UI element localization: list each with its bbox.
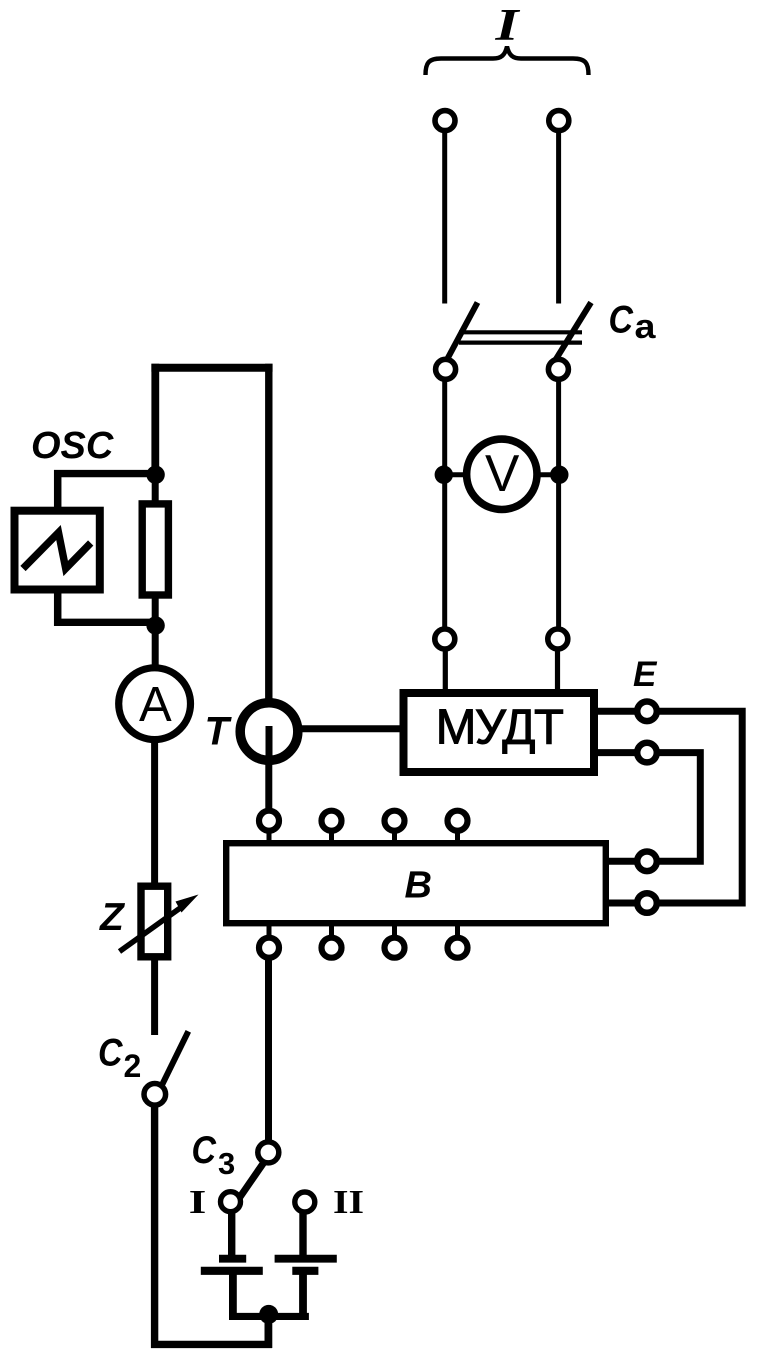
svg-text:C: C bbox=[192, 1129, 217, 1172]
svg-text:МУДТ: МУДТ bbox=[436, 701, 563, 755]
svg-text:B: B bbox=[405, 865, 432, 907]
svg-text:V: V bbox=[485, 444, 520, 502]
svg-text:E: E bbox=[633, 655, 658, 694]
svg-text:I: I bbox=[189, 1184, 207, 1221]
svg-text:3: 3 bbox=[218, 1146, 235, 1181]
svg-text:II: II bbox=[333, 1184, 364, 1221]
svg-text:I: I bbox=[494, 0, 520, 50]
svg-text:T: T bbox=[205, 710, 233, 754]
svg-text:C: C bbox=[609, 299, 634, 342]
svg-text:OSC: OSC bbox=[31, 425, 114, 467]
svg-text:2: 2 bbox=[124, 1048, 142, 1084]
svg-text:a: a bbox=[635, 308, 657, 346]
svg-text:A: A bbox=[139, 678, 172, 732]
svg-text:Z: Z bbox=[99, 896, 126, 939]
svg-text:C: C bbox=[98, 1032, 123, 1075]
